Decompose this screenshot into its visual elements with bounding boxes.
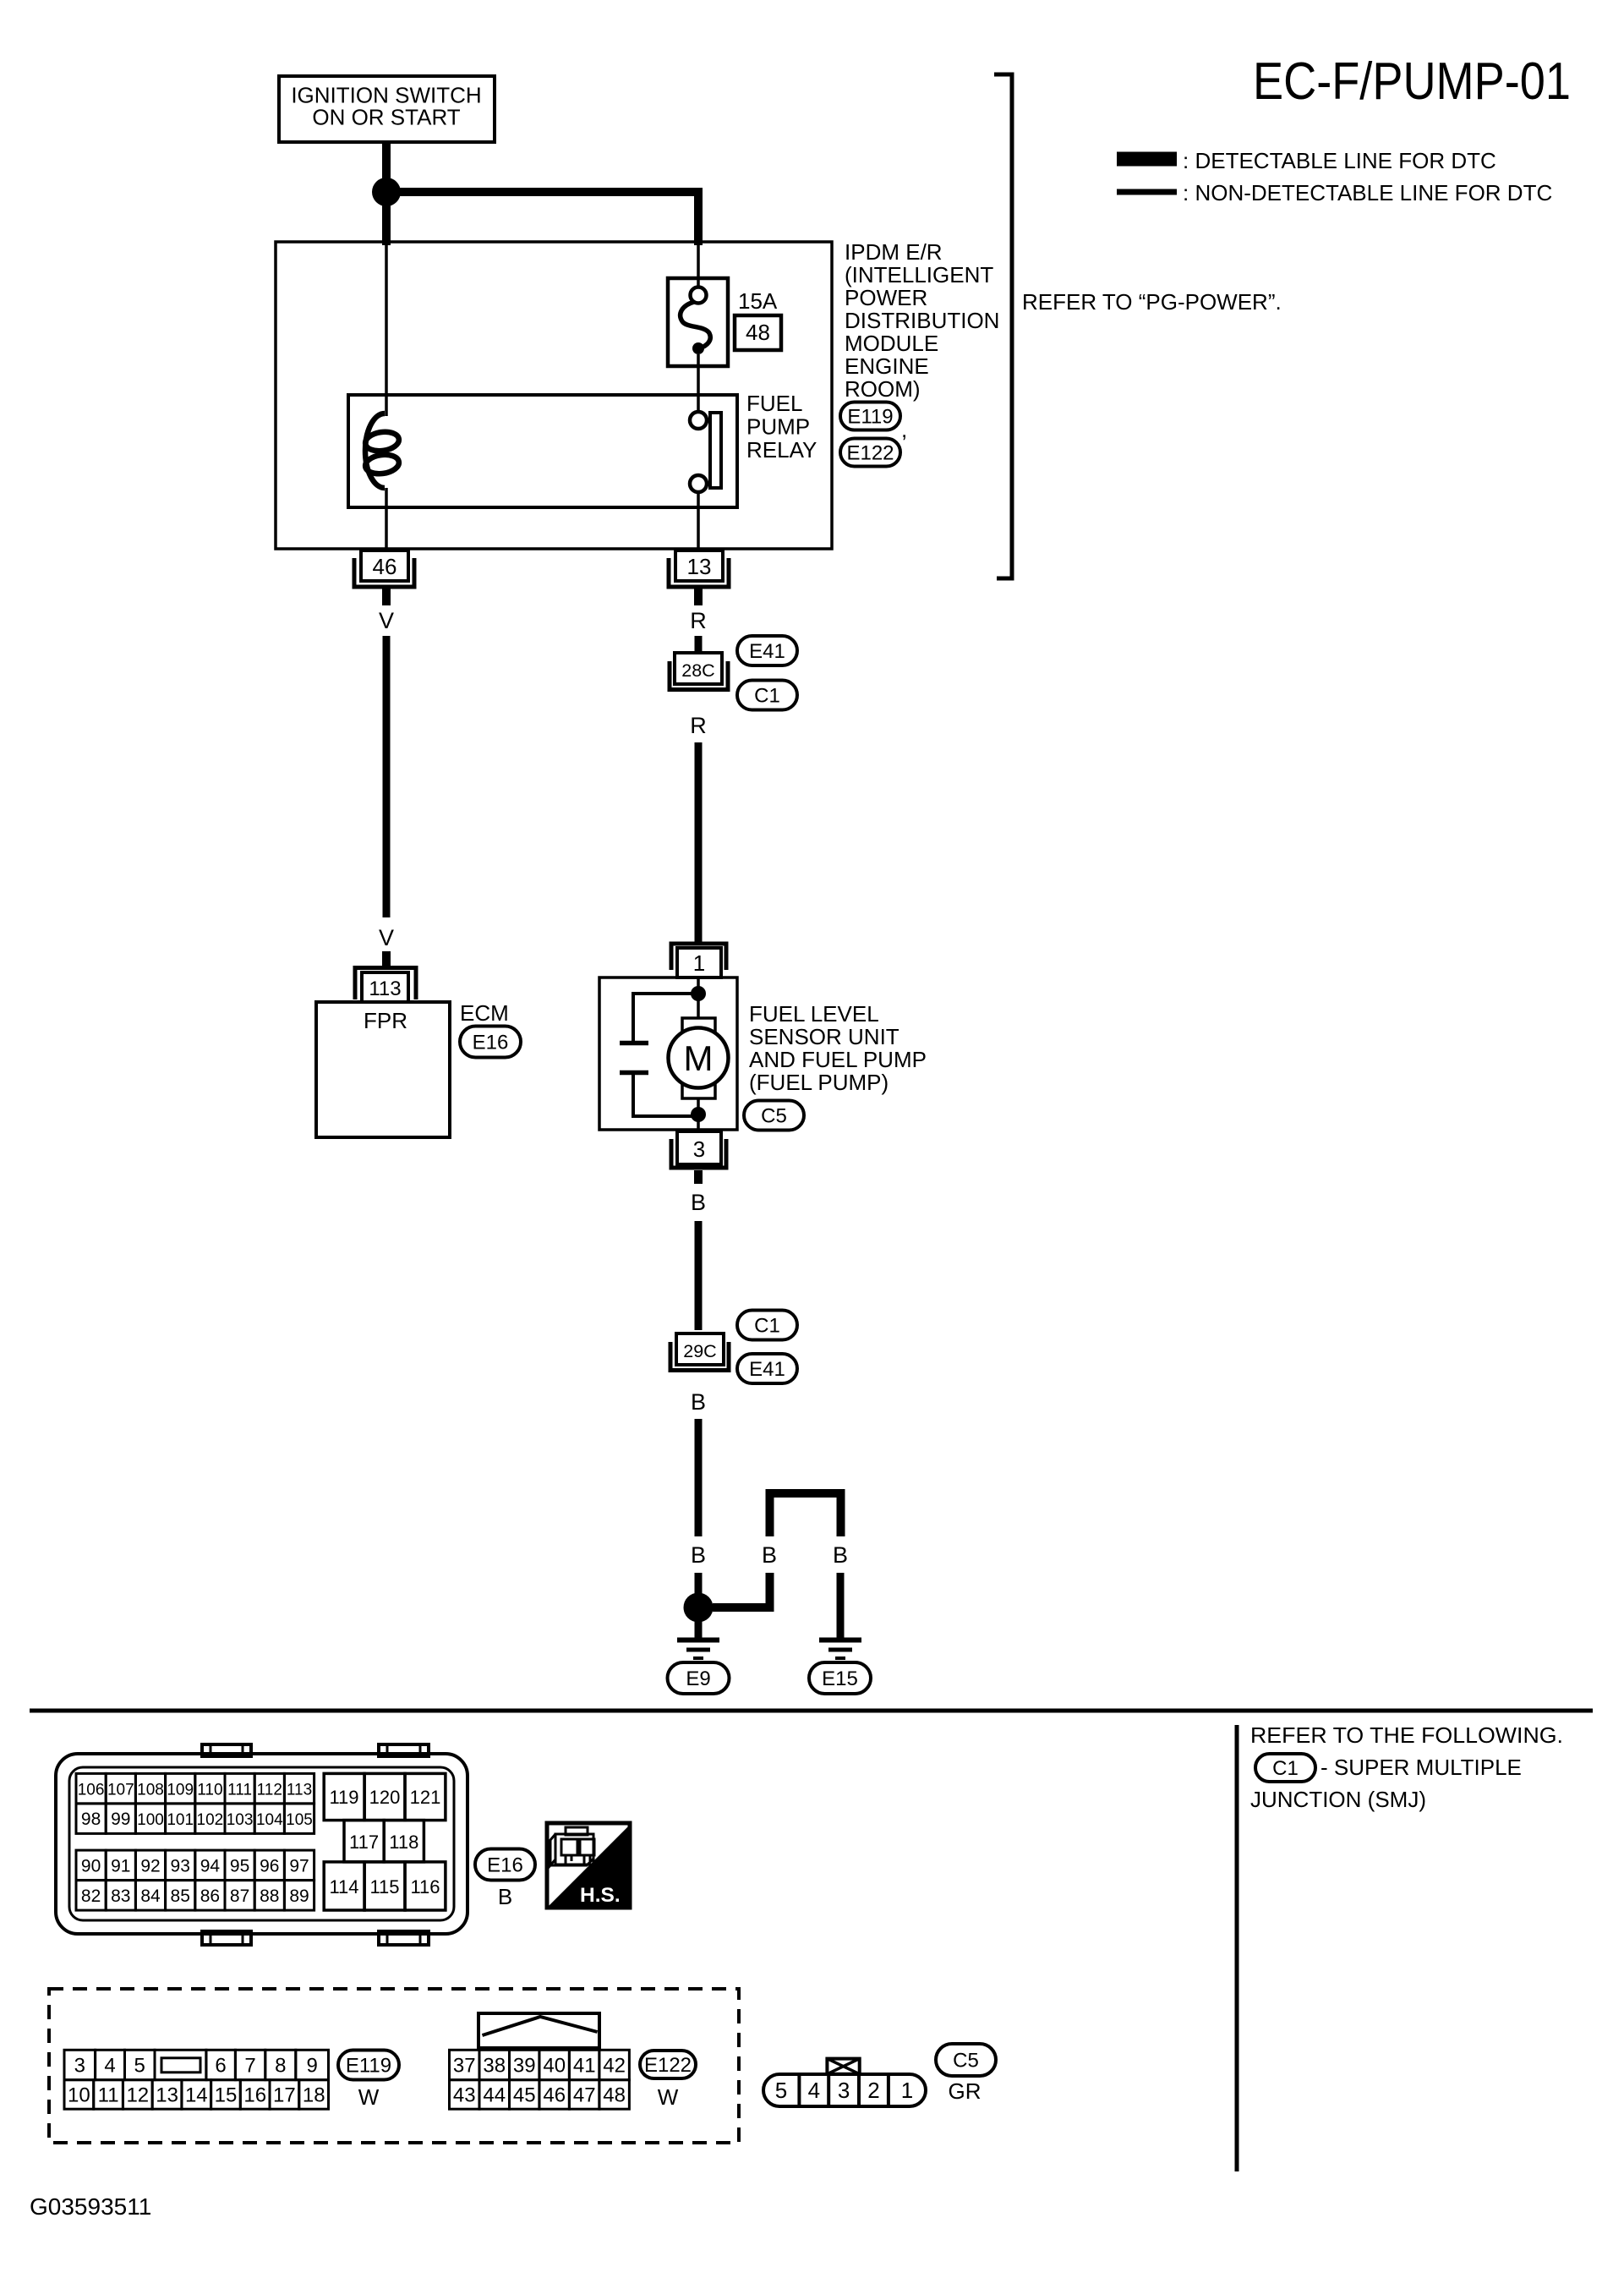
E16 pin 114: [324, 1862, 364, 1910]
E119 pin 17: [270, 2080, 299, 2110]
svg-text:E41: E41: [749, 640, 785, 663]
svg-text:C1: C1: [754, 1315, 780, 1338]
svg-text:115: 115: [369, 1876, 399, 1897]
svg-text:: DETECTABLE LINE FOR DTC: : DETECTABLE LINE FOR DTC: [1183, 148, 1496, 173]
E119 pin 14: [182, 2080, 211, 2110]
svg-text:47: 47: [573, 2084, 596, 2106]
wire terminal 1 to motor: [697, 977, 700, 1018]
svg-text:102: 102: [197, 1811, 224, 1829]
legend detectable line sample: [1117, 152, 1177, 167]
svg-text:83: 83: [111, 1886, 130, 1906]
SMJ terminal 28C: [675, 653, 722, 684]
svg-text:104: 104: [256, 1811, 283, 1829]
svg-text:E122: E122: [644, 2054, 692, 2077]
E16 pin 86: [195, 1881, 225, 1911]
svg-text:EC-F/PUMP-01: EC-F/PUMP-01: [1253, 52, 1571, 111]
connector oval E122: [840, 439, 900, 467]
legend non-detectable line sample: [1117, 189, 1177, 195]
E122 pin 46: [539, 2080, 569, 2110]
wire B to ground junction: [695, 1419, 703, 1536]
svg-text:B: B: [691, 1389, 706, 1415]
svg-text:C5: C5: [953, 2050, 979, 2073]
terminal 3 of fuel pump: [677, 1131, 721, 1164]
svg-text:87: 87: [230, 1886, 249, 1906]
E16 pin 109: [166, 1773, 195, 1804]
E16 pin 84: [135, 1881, 165, 1911]
svg-text:17: 17: [273, 2084, 296, 2106]
E16 pin 87: [225, 1881, 254, 1911]
svg-text:R: R: [690, 713, 707, 738]
C5 cell divider: [887, 2074, 890, 2106]
svg-text:96: 96: [260, 1856, 279, 1876]
wire motor to terminal 3: [697, 1098, 700, 1131]
E16 pin 118: [384, 1821, 424, 1862]
svg-text:MODULE: MODULE: [845, 331, 938, 356]
svg-text:2: 2: [867, 2078, 879, 2103]
svg-text:E9: E9: [686, 1667, 710, 1690]
connector oval C1: [737, 681, 797, 710]
svg-text:46: 46: [543, 2084, 566, 2106]
relay contact bottom circle: [690, 475, 707, 492]
fuse 15A box: [668, 278, 728, 366]
svg-text:6: 6: [215, 2055, 226, 2078]
svg-text:E16: E16: [473, 1032, 509, 1054]
svg-text:39: 39: [513, 2055, 536, 2078]
svg-text:29C: 29C: [683, 1341, 716, 1361]
ground symbol E9: [677, 1638, 719, 1643]
svg-text:99: 99: [111, 1810, 130, 1829]
IPDM E/R box: [276, 242, 832, 549]
E16 pin 120: [364, 1773, 405, 1820]
svg-text:(INTELLIGENT: (INTELLIGENT: [845, 262, 993, 287]
svg-text:PUMP: PUMP: [746, 414, 810, 440]
svg-text:9: 9: [307, 2055, 318, 2078]
svg-text:REFER TO “PG-POWER”.: REFER TO “PG-POWER”.: [1022, 289, 1282, 315]
E119 pin 5: [125, 2050, 156, 2079]
svg-text:94: 94: [200, 1856, 221, 1876]
wire coil to terminal 46: [385, 488, 388, 550]
E119 pin 13: [152, 2080, 182, 2110]
capacitor plates: [620, 1041, 648, 1046]
svg-text:43: 43: [453, 2084, 476, 2106]
E122 pin 41: [569, 2050, 599, 2079]
wire R from SMJ to fuel pump: [695, 742, 703, 943]
right column divider: [1235, 1725, 1239, 2171]
E119 pin 18: [299, 2080, 329, 2110]
E16 pin 107: [106, 1773, 135, 1804]
svg-text:FUEL LEVEL: FUEL LEVEL: [749, 1001, 879, 1027]
svg-text:88: 88: [260, 1886, 279, 1906]
connector oval E41 at 29C: [737, 1354, 797, 1383]
svg-text:JUNCTION (SMJ): JUNCTION (SMJ): [1250, 1787, 1426, 1812]
wire stub below 13: [694, 589, 703, 605]
E122 pin 40: [539, 2050, 569, 2079]
E16 pin 113: [284, 1773, 314, 1804]
svg-text:(FUEL PUMP): (FUEL PUMP): [749, 1070, 889, 1095]
svg-text:107: 107: [107, 1782, 134, 1799]
svg-text:3: 3: [838, 2078, 850, 2103]
capacitor branch top wire: [633, 994, 698, 1041]
svg-text:W: W: [658, 2084, 679, 2110]
svg-text:108: 108: [137, 1782, 164, 1799]
E16 pin 99: [106, 1804, 135, 1834]
svg-text:E41: E41: [749, 1358, 785, 1381]
svg-text:120: 120: [369, 1787, 401, 1808]
svg-text:116: 116: [410, 1876, 440, 1897]
svg-text:85: 85: [171, 1886, 190, 1906]
E119 keyway cell: [155, 2050, 206, 2079]
svg-text:B: B: [498, 1884, 512, 1909]
E16 pin 111: [225, 1773, 254, 1804]
E119 pin 10: [64, 2080, 94, 2110]
svg-text:121: 121: [410, 1787, 441, 1808]
wire contact to terminal 13: [697, 492, 700, 550]
E16 pin 97: [284, 1850, 314, 1881]
fuse number 48 box: [735, 315, 781, 350]
wire dot to E9 ground: [695, 1619, 703, 1638]
junction dot motor top: [691, 986, 706, 1001]
svg-text:,: ,: [901, 417, 907, 442]
relay contact top circle: [690, 412, 707, 429]
E16 connector top tab right: [379, 1744, 429, 1756]
svg-text:15: 15: [215, 2084, 238, 2106]
E16 pin 119: [324, 1773, 364, 1820]
svg-text:10: 10: [68, 2084, 90, 2106]
svg-text:110: 110: [197, 1782, 222, 1799]
svg-text:1: 1: [901, 2078, 913, 2103]
svg-text:82: 82: [81, 1886, 101, 1906]
svg-text:119: 119: [329, 1787, 358, 1808]
svg-text:3: 3: [74, 2055, 85, 2078]
E122 pin 42: [599, 2050, 629, 2079]
svg-text:112: 112: [257, 1782, 282, 1799]
svg-text:28C: 28C: [681, 660, 714, 681]
E119 pin 4: [96, 2050, 125, 2079]
wire right leg to E15 ground: [837, 1573, 845, 1638]
svg-text:13: 13: [156, 2084, 178, 2106]
ground symbol E15: [819, 1638, 861, 1643]
E16 pin 90: [76, 1850, 106, 1881]
connector oval E16 label: [475, 1849, 535, 1881]
svg-text:IPDM E/R: IPDM E/R: [845, 239, 943, 265]
E16 pin 89: [284, 1881, 314, 1911]
svg-text:45: 45: [513, 2084, 536, 2106]
E119 pin 11: [94, 2080, 123, 2110]
connector oval E119: [840, 402, 900, 430]
svg-text:ROOM): ROOM): [845, 376, 921, 402]
svg-text:E15: E15: [822, 1667, 858, 1690]
E119 pin 6: [206, 2050, 236, 2079]
svg-text:44: 44: [483, 2084, 506, 2106]
svg-text:E119: E119: [847, 406, 893, 429]
svg-text:3: 3: [693, 1136, 705, 1162]
svg-text:AND FUEL PUMP: AND FUEL PUMP: [749, 1047, 927, 1072]
E16 connector bottom tab right: [379, 1931, 429, 1945]
svg-text:M: M: [684, 1038, 714, 1078]
svg-text:92: 92: [140, 1856, 160, 1876]
relay coil: [365, 413, 385, 488]
E16 pin 82: [76, 1881, 106, 1911]
connector oval E41: [737, 636, 797, 665]
svg-text:E122: E122: [846, 442, 894, 465]
svg-text:113: 113: [287, 1782, 312, 1799]
svg-text:95: 95: [230, 1856, 249, 1876]
svg-text:11: 11: [98, 2084, 119, 2106]
E119 pin 8: [265, 2050, 296, 2079]
svg-text:5: 5: [134, 2055, 145, 2078]
svg-text:37: 37: [453, 2055, 476, 2078]
svg-text:18: 18: [303, 2084, 325, 2106]
svg-text:W: W: [358, 2084, 380, 2110]
wire B to ground dot: [695, 1573, 703, 1596]
bracket for IPDM refer note: [994, 74, 1012, 578]
svg-text:14: 14: [185, 2084, 208, 2106]
E16 pin 93: [166, 1850, 195, 1881]
ignition switch box: [279, 76, 495, 142]
E16 pin 98: [76, 1804, 106, 1834]
svg-text:1: 1: [693, 950, 705, 976]
svg-text:V: V: [379, 925, 394, 950]
E16 pin 101: [166, 1804, 195, 1834]
E122 pin 48: [599, 2080, 629, 2110]
svg-text:C1: C1: [1272, 1757, 1299, 1780]
SMJ terminal 29C: [676, 1333, 724, 1365]
E122 pin 39: [510, 2050, 539, 2079]
svg-text:106: 106: [78, 1782, 105, 1799]
connector oval C1 at 29C: [737, 1311, 797, 1340]
IPDM connectors dashed box: [49, 1989, 739, 2143]
E16 pin 85: [166, 1881, 195, 1911]
svg-text:B: B: [762, 1542, 777, 1568]
connector oval E119 label: [338, 2051, 399, 2080]
svg-text:RELAY: RELAY: [746, 437, 817, 463]
svg-text:REFER TO THE FOLLOWING.: REFER TO THE FOLLOWING.: [1250, 1722, 1563, 1748]
E119 pin 9: [296, 2050, 329, 2079]
svg-text:16: 16: [243, 2084, 266, 2106]
svg-text:POWER: POWER: [845, 285, 927, 310]
E122 pin 37: [450, 2050, 479, 2079]
svg-text:113: 113: [369, 977, 401, 1000]
E122 pin 43: [450, 2080, 479, 2110]
E16 pin 110: [195, 1773, 225, 1804]
E122 pin 44: [479, 2080, 509, 2110]
wire node to fuse branch horizontal: [386, 188, 698, 196]
svg-text:117: 117: [349, 1832, 379, 1853]
svg-text:101: 101: [167, 1811, 194, 1829]
fuse element: [691, 287, 707, 304]
C5 keying bowtie: [827, 2059, 859, 2074]
E16 pin 92: [135, 1850, 165, 1881]
svg-text:G03593511: G03593511: [30, 2193, 151, 2220]
svg-text:E119: E119: [346, 2055, 391, 2078]
wire fuse to relay contact: [697, 354, 700, 413]
E16 pin 94: [195, 1850, 225, 1881]
svg-text:97: 97: [289, 1856, 309, 1876]
IPDM connector E122 top shape: [478, 2013, 599, 2048]
E16 pin 83: [106, 1881, 135, 1911]
E119 pin 7: [235, 2050, 265, 2079]
E16 pin 105: [284, 1804, 314, 1834]
svg-text:109: 109: [167, 1782, 194, 1799]
svg-text:38: 38: [483, 2055, 506, 2078]
svg-text:B: B: [691, 1190, 706, 1215]
junction dot motor bottom: [691, 1107, 706, 1122]
E16 pin 106: [76, 1773, 106, 1804]
svg-text:89: 89: [289, 1886, 309, 1906]
wire node down into IPDM: [382, 201, 391, 245]
svg-text:H.S.: H.S.: [580, 1884, 621, 1907]
E16 pin 100: [135, 1804, 165, 1834]
wire IPDM top to relay coil: [385, 244, 388, 416]
svg-text:41: 41: [573, 2055, 596, 2078]
E16 pin 96: [254, 1850, 284, 1881]
svg-text:8: 8: [275, 2055, 286, 2078]
svg-text:V: V: [379, 608, 394, 633]
svg-text:C5: C5: [761, 1105, 787, 1128]
E16 pin 88: [254, 1881, 284, 1911]
svg-text:98: 98: [81, 1810, 101, 1829]
ECM connector E16 outline: [56, 1754, 468, 1934]
terminal 13 of IPDM: [675, 550, 723, 581]
E16 connector top tab left: [202, 1744, 251, 1756]
svg-text:FUEL: FUEL: [746, 391, 802, 416]
svg-text:86: 86: [200, 1886, 220, 1906]
svg-text:100: 100: [137, 1811, 164, 1829]
svg-text:B: B: [691, 1542, 706, 1568]
E119 pin 12: [123, 2080, 152, 2110]
E16 pin 112: [254, 1773, 284, 1804]
E122 pin 38: [479, 2050, 509, 2079]
svg-text:111: 111: [227, 1782, 252, 1799]
capacitor branch bottom wire: [633, 1075, 698, 1116]
wire stub below 46: [382, 589, 391, 605]
connector oval C1 note: [1255, 1754, 1315, 1782]
fuel level sensor unit box: [599, 977, 737, 1130]
E119 pin 15: [211, 2080, 241, 2110]
E16 pin 117: [344, 1821, 384, 1862]
node junction dot: [372, 178, 401, 206]
E16 pin 115: [364, 1862, 405, 1910]
svg-text:48: 48: [746, 320, 770, 345]
E16 connector bottom tab left: [202, 1931, 251, 1945]
svg-text:GR: GR: [949, 2078, 982, 2104]
svg-text:15A: 15A: [738, 288, 778, 314]
wire inside IPDM to fuse: [697, 244, 700, 287]
relay contact bar: [710, 413, 721, 488]
svg-text:4: 4: [808, 2078, 820, 2103]
svg-text:4: 4: [104, 2055, 115, 2078]
svg-text:- SUPER MULTIPLE: - SUPER MULTIPLE: [1321, 1755, 1522, 1780]
terminal 46 of IPDM: [361, 550, 408, 581]
E16 pin 121: [405, 1773, 446, 1820]
fuel pump relay box: [348, 395, 737, 507]
C5 cell divider: [827, 2074, 830, 2106]
svg-text:5: 5: [775, 2078, 787, 2103]
ECM box: [316, 1002, 450, 1137]
E119 pin 3: [64, 2050, 96, 2079]
svg-text:: NON-DETECTABLE LINE FOR DTC: : NON-DETECTABLE LINE FOR DTC: [1183, 180, 1552, 205]
svg-text:103: 103: [227, 1811, 254, 1829]
svg-text:42: 42: [603, 2055, 626, 2078]
svg-text:91: 91: [111, 1856, 130, 1876]
connector oval C5 label: [936, 2044, 996, 2076]
svg-text:90: 90: [81, 1856, 101, 1876]
ground oval E9: [668, 1662, 730, 1694]
wire V from IPDM 46 to ECM: [383, 636, 391, 917]
ground oval E15: [809, 1662, 871, 1694]
svg-text:E16: E16: [487, 1854, 523, 1877]
wire R from IPDM 13 to SMJ: [695, 636, 703, 654]
E16 pin 104: [254, 1804, 284, 1834]
terminal 1 of fuel pump: [671, 944, 726, 970]
wire ignition switch to node: [382, 142, 391, 184]
wire stub above terminal 113: [382, 951, 391, 967]
svg-text:R: R: [690, 608, 707, 633]
fuel pump motor: [682, 1018, 715, 1098]
svg-text:46: 46: [373, 554, 397, 579]
separator line: [30, 1709, 1593, 1713]
wire B from pump to SMJ: [695, 1221, 703, 1330]
E122 pin 45: [510, 2080, 539, 2110]
fuel pump connector C5 body: [763, 2074, 926, 2106]
E16 pin 102: [195, 1804, 225, 1834]
connector oval C5: [744, 1101, 804, 1131]
connector oval E16: [460, 1027, 521, 1058]
svg-text:B: B: [833, 1542, 848, 1568]
wire stub below 3: [694, 1170, 703, 1184]
wire middle leg to junction: [713, 1573, 770, 1607]
svg-text:93: 93: [171, 1856, 190, 1876]
E16 pin 108: [135, 1773, 165, 1804]
E16 pin 95: [225, 1850, 254, 1881]
svg-text:13: 13: [687, 554, 712, 579]
ground junction dot: [684, 1593, 714, 1623]
svg-text:FPR: FPR: [364, 1008, 407, 1033]
svg-text:C1: C1: [754, 685, 780, 708]
C5 cell divider: [797, 2074, 801, 2106]
svg-text:ECM: ECM: [460, 1000, 509, 1026]
svg-text:84: 84: [140, 1886, 161, 1906]
C5 cell divider: [857, 2074, 861, 2106]
E119 pin 16: [240, 2080, 270, 2110]
E16 pin 91: [106, 1850, 135, 1881]
svg-text:ON OR START: ON OR START: [312, 105, 460, 130]
E16 pin 103: [225, 1804, 254, 1834]
svg-text:DISTRIBUTION: DISTRIBUTION: [845, 308, 999, 333]
svg-text:SENSOR UNIT: SENSOR UNIT: [749, 1024, 899, 1049]
svg-text:ENGINE: ENGINE: [845, 353, 929, 379]
svg-text:118: 118: [389, 1832, 418, 1853]
svg-text:48: 48: [603, 2084, 626, 2106]
H.S. harness side logo: [547, 1823, 630, 1908]
svg-text:105: 105: [286, 1811, 313, 1829]
svg-text:7: 7: [244, 2055, 255, 2078]
terminal 113 of ECM: [355, 968, 416, 1000]
svg-text:40: 40: [543, 2055, 566, 2078]
E16 pin 116: [405, 1862, 446, 1910]
wire fuse branch vertical into IPDM: [694, 188, 703, 245]
wire loop E15 branch: [770, 1493, 841, 1536]
E122 pin 47: [569, 2080, 599, 2110]
svg-text:12: 12: [126, 2084, 149, 2106]
svg-text:114: 114: [329, 1876, 358, 1897]
connector oval E122 label: [640, 2051, 696, 2078]
E119 keyway inner slot: [161, 2058, 200, 2073]
